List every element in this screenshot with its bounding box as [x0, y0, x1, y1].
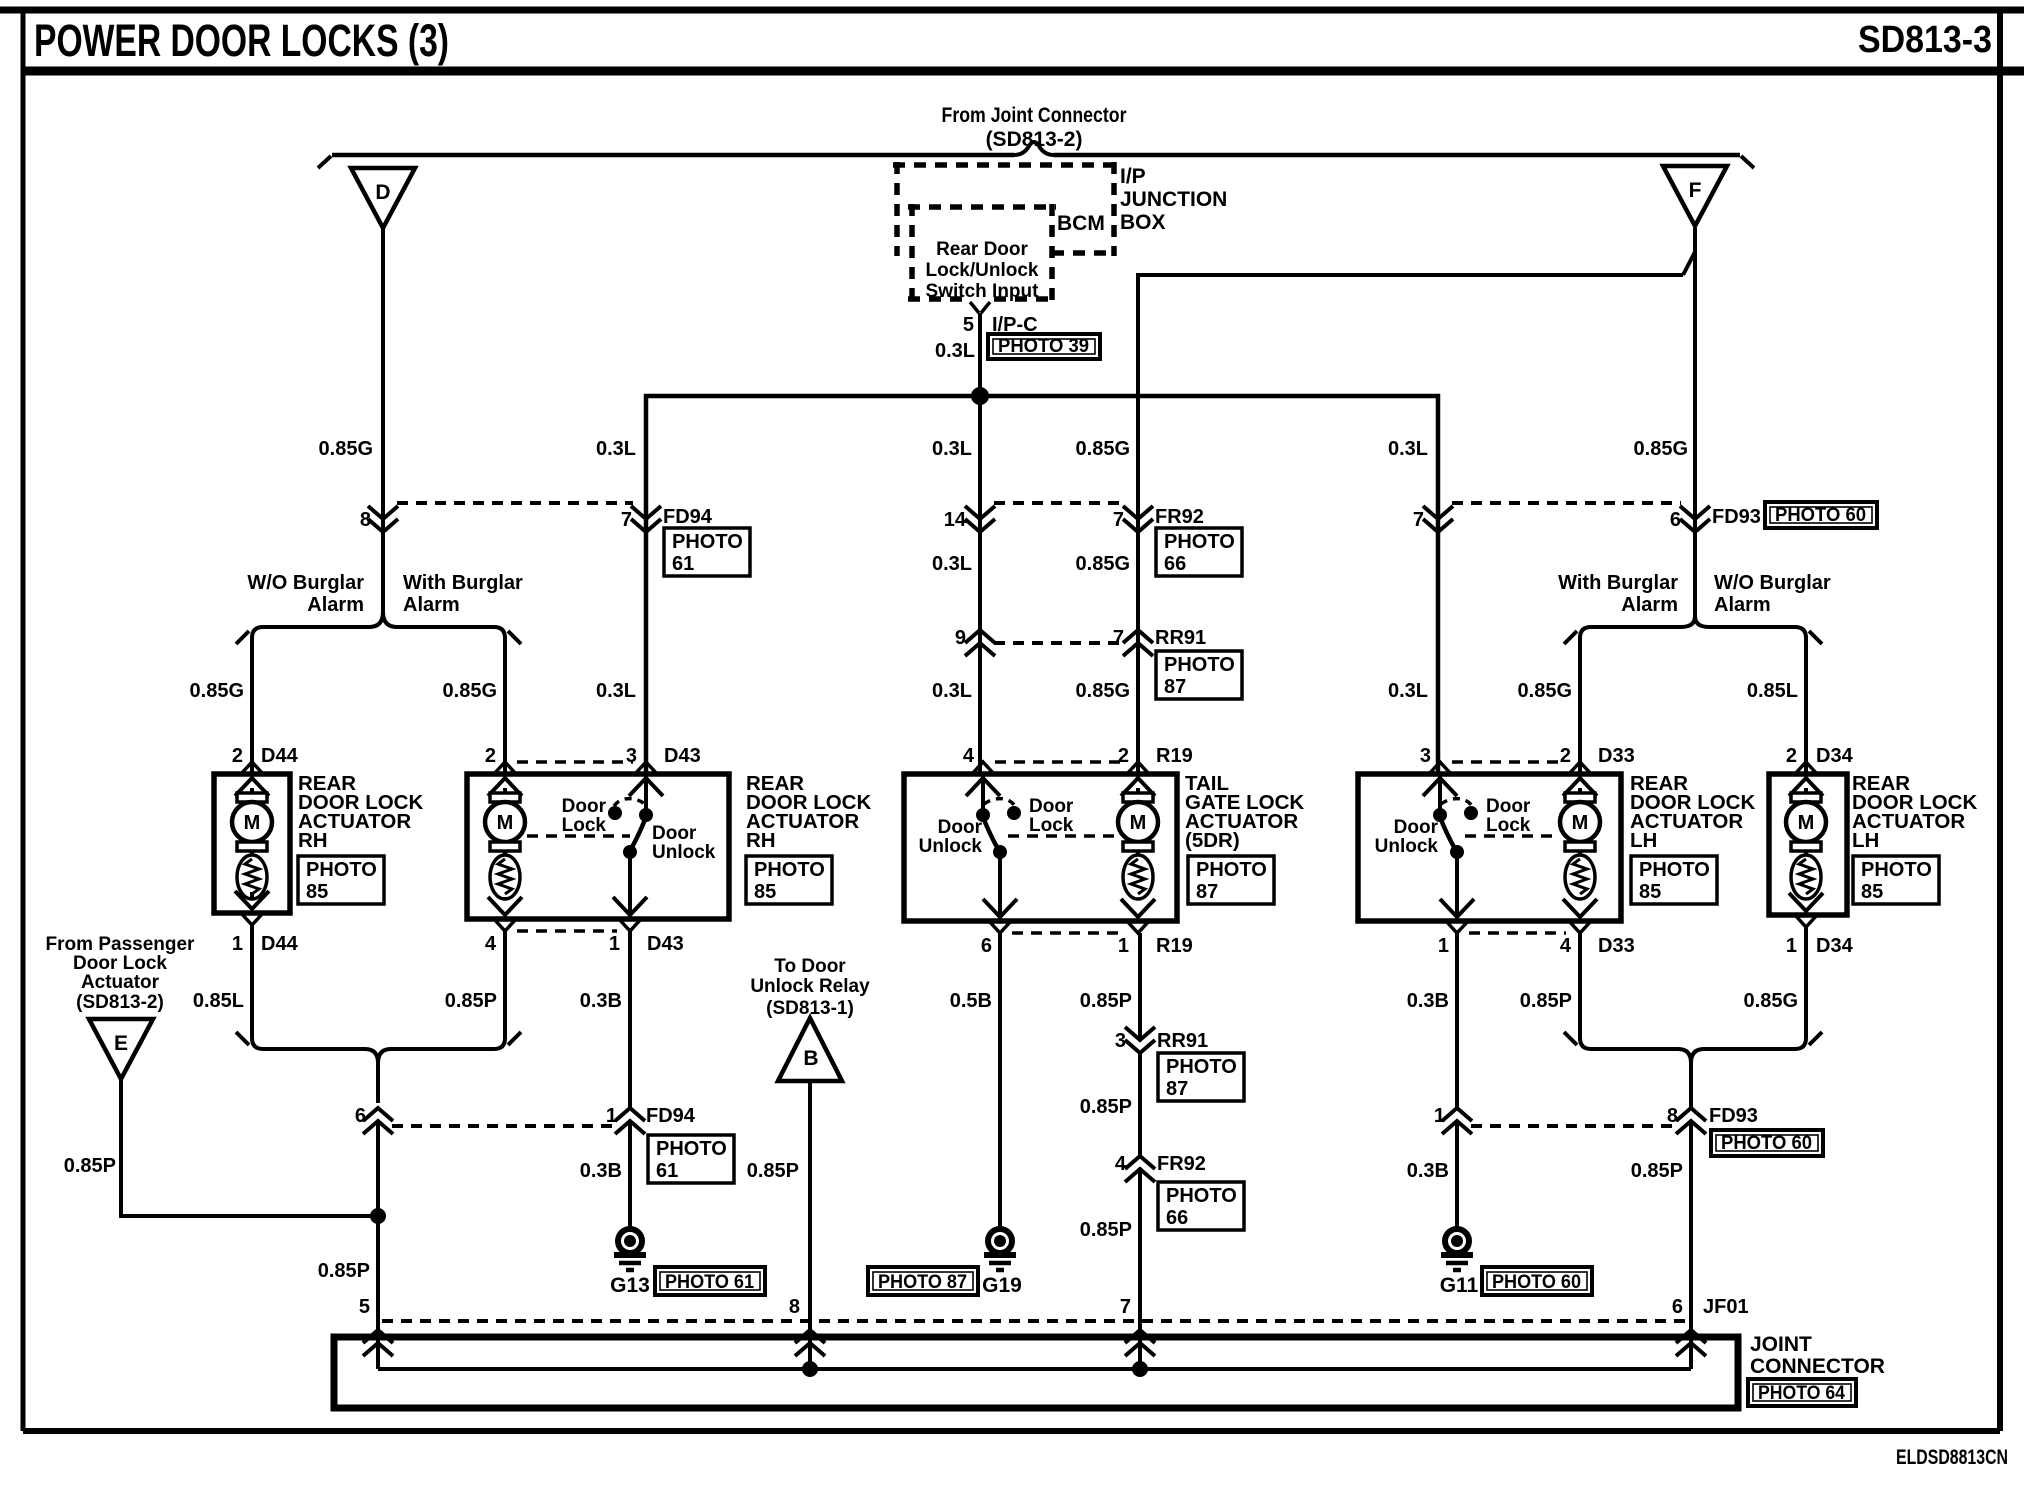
wire 0.85G to D33 pin 2 — [1578, 638, 1582, 774]
wire 0.85L from D44 pin 1 — [250, 925, 254, 1038]
svg-text:PHOTO: PHOTO — [1166, 1056, 1237, 1078]
pin 2 connector chevrons — [488, 762, 522, 796]
connector pin 9 on I/P-C branch — [965, 630, 995, 656]
svg-text:0.85P: 0.85P — [747, 1160, 799, 1182]
ground G19 — [984, 1229, 1016, 1270]
svg-text:0.85G: 0.85G — [1076, 553, 1130, 575]
svg-text:BCM: BCM — [1057, 212, 1105, 235]
svg-text:0.3B: 0.3B — [1407, 990, 1449, 1012]
svg-text:4: 4 — [1560, 935, 1572, 957]
svg-text:66: 66 — [1164, 553, 1186, 575]
svg-text:PHOTO: PHOTO — [1164, 531, 1235, 553]
wire 0.85G to D43 pin 2 — [503, 638, 507, 774]
svg-text:PHOTO: PHOTO — [1639, 859, 1710, 881]
connector R19 dashed link pins 4-2 — [995, 760, 1124, 764]
svg-text:1: 1 — [1434, 1105, 1445, 1127]
svg-text:Unlock: Unlock — [652, 842, 716, 863]
wire merge to passenger door lock feed — [236, 1032, 521, 1103]
photo ref box PHOTO 61 — [664, 528, 750, 576]
svg-text:M: M — [1572, 812, 1589, 834]
photo ref box PHOTO 61 — [655, 1267, 765, 1295]
svg-text:14: 14 — [944, 509, 967, 531]
joint connector internal bus — [378, 1367, 1691, 1371]
photo ref box PHOTO 87 — [1156, 651, 1242, 699]
svg-text:2: 2 — [1118, 745, 1129, 767]
svg-text:Alarm: Alarm — [1714, 594, 1771, 616]
ground G11 — [1441, 1229, 1473, 1270]
photo ref box PHOTO 61 — [648, 1135, 734, 1183]
wire switch common to pin 6 — [998, 852, 1002, 921]
ground G13 — [614, 1229, 646, 1270]
svg-text:D34: D34 — [1816, 745, 1854, 767]
svg-text:JUNCTION: JUNCTION — [1120, 188, 1227, 211]
svg-text:85: 85 — [754, 881, 776, 903]
svg-text:1: 1 — [1438, 935, 1449, 957]
node junction with connector E wire — [370, 1208, 386, 1224]
svg-text:Lock: Lock — [1486, 815, 1531, 836]
svg-text:JF01: JF01 — [1703, 1296, 1749, 1318]
motor M of tail gate lock actuator — [1118, 788, 1158, 899]
svg-text:7: 7 — [1113, 627, 1124, 649]
joint connector pin 7 chevrons — [1125, 1330, 1155, 1356]
svg-text:0.85L: 0.85L — [1747, 680, 1798, 702]
svg-text:0.85P: 0.85P — [1080, 1219, 1132, 1241]
wire pin 3 to switch — [1438, 774, 1442, 814]
svg-text:0.5B: 0.5B — [950, 990, 992, 1012]
svg-text:61: 61 — [672, 553, 694, 575]
svg-text:G13: G13 — [610, 1274, 650, 1297]
component box tail gate lock actuator (5DR), connector R19 — [904, 774, 1177, 921]
svg-text:PHOTO: PHOTO — [754, 859, 825, 881]
svg-text:6: 6 — [355, 1105, 366, 1127]
svg-text:0.3L: 0.3L — [932, 553, 972, 575]
svg-text:2: 2 — [1560, 745, 1571, 767]
pin 2 connector chevrons — [1563, 762, 1597, 796]
svg-text:Alarm: Alarm — [1621, 594, 1678, 616]
svg-text:0.85G: 0.85G — [1518, 680, 1572, 702]
wire 0.85G from connector D — [381, 228, 385, 612]
svg-text:To Door: To Door — [774, 956, 846, 977]
wire from connector F down to FR92 branch — [1138, 252, 1695, 774]
connector FD93 pin 6 — [1680, 506, 1710, 532]
svg-text:8: 8 — [789, 1296, 800, 1318]
wire 0.85P from FD93 pin 8 to joint connector pin 6 — [1689, 1121, 1693, 1369]
door lock/unlock switch of D43 actuator — [527, 799, 653, 859]
photo ref box PHOTO 85 — [1631, 856, 1717, 904]
svg-text:Unlock: Unlock — [1375, 836, 1439, 857]
wire split D branch to with/without burglar alarm — [236, 612, 521, 644]
svg-text:66: 66 — [1166, 1207, 1188, 1229]
photo ref box PHOTO 60 — [1711, 1130, 1823, 1156]
svg-text:BOX: BOX — [1120, 211, 1166, 234]
svg-text:D33: D33 — [1598, 745, 1635, 767]
wire 0.85G from connector F — [1693, 228, 1697, 616]
connector link dashed joint connector pins 5-8-7-6 — [382, 1319, 1692, 1323]
svg-text:CONNECTOR: CONNECTOR — [1750, 1355, 1885, 1378]
connector D43 dashed link pins 2-3 — [517, 760, 633, 764]
connector FD94 pin 7 — [631, 506, 661, 532]
svg-text:R19: R19 — [1156, 935, 1193, 957]
wire merge to FD93 pin 8 — [1564, 1032, 1822, 1108]
svg-text:0.3L: 0.3L — [596, 680, 636, 702]
connector RR91 pin 3 — [1125, 1027, 1155, 1053]
svg-text:87: 87 — [1164, 676, 1186, 698]
pin 4 connector chevrons — [488, 897, 522, 931]
svg-text:D43: D43 — [664, 745, 701, 767]
svg-text:0.85G: 0.85G — [319, 438, 373, 460]
svg-text:D33: D33 — [1598, 935, 1635, 957]
wire 0.85P from connector B to joint connector pin 8 — [808, 1080, 812, 1369]
svg-text:PHOTO: PHOTO — [656, 1138, 727, 1160]
svg-text:B: B — [803, 1047, 818, 1070]
joint connector pin 8 chevrons — [795, 1330, 825, 1356]
I/P junction box (dashed outline) — [893, 162, 1114, 256]
svg-text:PHOTO: PHOTO — [306, 859, 377, 881]
svg-text:Lock: Lock — [562, 815, 607, 836]
svg-text:W/O Burglar: W/O Burglar — [1714, 572, 1831, 594]
svg-text:1: 1 — [232, 933, 243, 955]
motor M of rear door lock actuator LH — [1560, 788, 1600, 899]
wire 0.85G to D44 pin 2 — [250, 638, 254, 774]
connector D43 dashed link pins 4-1 — [517, 929, 617, 933]
svg-text:0.85G: 0.85G — [1744, 990, 1798, 1012]
svg-text:M: M — [244, 812, 261, 834]
svg-text:0.85G: 0.85G — [190, 680, 244, 702]
wire 0.85P from D33 pin 4 — [1578, 931, 1582, 1038]
connector RR91 pin 7 — [1123, 630, 1153, 656]
svg-text:D34: D34 — [1816, 935, 1854, 957]
pin 1 connector chevrons — [1440, 899, 1474, 933]
svg-text:0.85L: 0.85L — [193, 990, 244, 1012]
svg-text:2: 2 — [1786, 745, 1797, 767]
svg-text:0.85G: 0.85G — [1634, 438, 1688, 460]
svg-text:Lock/Unlock: Lock/Unlock — [926, 260, 1039, 281]
svg-text:FR92: FR92 — [1157, 1153, 1206, 1175]
svg-text:1: 1 — [1118, 935, 1129, 957]
svg-text:8: 8 — [360, 509, 371, 531]
wire switch common to pin 1 — [1455, 852, 1459, 921]
wire split F branch to with/without burglar alarm — [1564, 616, 1822, 644]
svg-text:0.3B: 0.3B — [1407, 1160, 1449, 1182]
connector FD94 pin 1 — [615, 1108, 645, 1134]
svg-text:0.85G: 0.85G — [443, 680, 497, 702]
svg-text:M: M — [1798, 812, 1815, 834]
svg-text:87: 87 — [1166, 1078, 1188, 1100]
wire 0.3L from BCM pin 5 to node — [978, 313, 982, 396]
pin 6 connector chevrons — [983, 899, 1017, 933]
connector D33 dashed link pins 1-4 — [1469, 931, 1566, 935]
connector link dashed 1-8 — [1471, 1124, 1675, 1128]
svg-text:(SD813-2): (SD813-2) — [986, 128, 1083, 151]
wire 0.85P from D43 pin 4 — [503, 931, 507, 1038]
pin 2 connector chevrons — [1789, 762, 1823, 796]
svg-text:85: 85 — [306, 881, 328, 903]
wire switch common to pin 1 — [628, 852, 632, 919]
node junction of I/P-C wire and bus — [971, 387, 989, 405]
svg-text:0.85G: 0.85G — [1076, 680, 1130, 702]
svg-text:Alarm: Alarm — [403, 594, 460, 616]
wire 0.85G from D34 pin 1 — [1804, 927, 1808, 1038]
svg-text:PHOTO 60: PHOTO 60 — [1492, 1272, 1581, 1293]
svg-text:F: F — [1689, 179, 1702, 202]
svg-text:Rear Door: Rear Door — [936, 239, 1028, 260]
connector link dashed 14-7 — [994, 501, 1124, 505]
svg-text:PHOTO 60: PHOTO 60 — [1721, 1133, 1812, 1154]
svg-text:JOINT: JOINT — [1750, 1333, 1812, 1356]
svg-text:Alarm: Alarm — [307, 594, 364, 616]
svg-text:4: 4 — [485, 933, 497, 955]
svg-text:From Joint Connector: From Joint Connector — [942, 104, 1127, 127]
connector R19 dashed link pins 6-1 — [1012, 931, 1124, 935]
svg-text:4: 4 — [963, 745, 975, 767]
svg-text:G11: G11 — [1440, 1274, 1479, 1297]
svg-text:PHOTO: PHOTO — [1166, 1185, 1237, 1207]
joint connector pin 5 chevrons — [363, 1330, 393, 1356]
motor M of rear door lock actuator RH — [485, 788, 525, 899]
svg-text:RH: RH — [298, 829, 328, 852]
connector link dashed 8-7 — [397, 501, 633, 505]
pin 1 connector chevrons — [613, 897, 647, 931]
connector pin 8 on D branch — [368, 506, 398, 532]
svg-text:4: 4 — [1115, 1153, 1127, 1175]
svg-text:With Burglar: With Burglar — [403, 572, 523, 594]
svg-text:D: D — [375, 181, 390, 204]
svg-text:3: 3 — [1420, 745, 1431, 767]
pin 4 connector chevrons — [966, 762, 1000, 796]
wire bus from node to FD94 branch and right branch — [646, 396, 1438, 774]
wire 0.85P from connector E — [121, 1079, 378, 1216]
svg-text:Unlock Relay: Unlock Relay — [750, 976, 870, 997]
wire 0.3B from FD94 pin 1 to ground G13 — [628, 1121, 632, 1229]
svg-text:0.85P: 0.85P — [64, 1155, 116, 1177]
connector F (from joint connector) — [1663, 166, 1727, 226]
wire 0.3B from D43 pin 1 — [628, 931, 632, 1108]
svg-text:FD94: FD94 — [646, 1105, 696, 1127]
svg-text:FD93: FD93 — [1712, 506, 1761, 528]
photo ref box PHOTO 64 — [1748, 1379, 1856, 1406]
svg-text:FD94: FD94 — [663, 506, 713, 528]
connector pin 7 on right branch — [1423, 506, 1453, 532]
node joint connector bus junction — [1132, 1361, 1148, 1377]
connector D33 dashed link pins 3-2 — [1452, 760, 1566, 764]
svg-text:9: 9 — [955, 627, 966, 649]
svg-text:(5DR): (5DR) — [1185, 829, 1240, 852]
wire 0.85L to D34 pin 2 — [1804, 638, 1808, 774]
svg-text:0.3B: 0.3B — [580, 990, 622, 1012]
svg-text:Unlock: Unlock — [919, 836, 983, 857]
connector FR92 pin 7 — [1123, 506, 1153, 532]
svg-text:7: 7 — [621, 509, 632, 531]
svg-text:6: 6 — [981, 935, 992, 957]
pin 1 connector chevrons — [1121, 899, 1155, 933]
component box rear door lock actuator LH (with burglar alarm), connector D33 — [1358, 774, 1621, 921]
svg-text:PHOTO: PHOTO — [1164, 654, 1235, 676]
svg-text:RR91: RR91 — [1157, 1030, 1208, 1052]
svg-text:5: 5 — [359, 1296, 370, 1318]
svg-text:87: 87 — [1196, 881, 1218, 903]
connector B (to door unlock relay) — [778, 1018, 842, 1081]
component box rear door lock actuator LH (w/o burglar alarm), connector D34 — [1769, 774, 1847, 915]
pin 5 I/P-C output of BCM — [970, 302, 990, 313]
svg-text:0.85P: 0.85P — [1520, 990, 1572, 1012]
svg-text:I/P: I/P — [1120, 165, 1146, 188]
svg-text:From Passenger: From Passenger — [46, 934, 195, 955]
wire 0.3B to ground G11 — [1455, 1121, 1459, 1229]
wire pin 3 to switch — [644, 774, 648, 814]
svg-text:0.3L: 0.3L — [935, 340, 975, 362]
svg-text:G19: G19 — [982, 1274, 1022, 1297]
door lock/unlock switch of D33 actuator — [1433, 799, 1558, 859]
svg-text:3: 3 — [626, 745, 637, 767]
svg-text:1: 1 — [1786, 935, 1797, 957]
svg-text:PHOTO 61: PHOTO 61 — [665, 1272, 754, 1293]
photo ref box PHOTO 85 — [1853, 856, 1939, 904]
svg-text:Lock: Lock — [1029, 815, 1074, 836]
svg-text:LH: LH — [1852, 829, 1879, 852]
connector link dashed 7-6 — [1452, 501, 1681, 505]
svg-text:0.3L: 0.3L — [932, 438, 972, 460]
connector pin 1 on D33 switch wire — [1442, 1108, 1472, 1134]
svg-text:R19: R19 — [1156, 745, 1193, 767]
door lock/unlock switch of tail gate actuator — [976, 799, 1116, 859]
svg-text:PHOTO 87: PHOTO 87 — [878, 1272, 967, 1293]
svg-text:0.85P: 0.85P — [1080, 1096, 1132, 1118]
photo ref box PHOTO 66 — [1156, 528, 1242, 576]
pin 3 connector chevrons — [629, 762, 663, 796]
svg-text:PHOTO: PHOTO — [672, 531, 743, 553]
svg-text:7: 7 — [1120, 1296, 1131, 1318]
pin 2 connector chevrons — [1121, 762, 1155, 796]
pin 4 connector chevrons — [1563, 899, 1597, 933]
svg-text:PHOTO: PHOTO — [1196, 859, 1267, 881]
pin 1 connector chevrons — [235, 891, 269, 925]
svg-text:8: 8 — [1667, 1105, 1678, 1127]
svg-text:0.3L: 0.3L — [932, 680, 972, 702]
pin 3 connector chevrons — [1423, 762, 1457, 796]
svg-text:0.3L: 0.3L — [1388, 438, 1428, 460]
svg-text:0.85P: 0.85P — [318, 1260, 370, 1282]
wire top feed bus from joint connector SD813-2 — [318, 142, 1754, 168]
svg-text:ELDSD8813CN: ELDSD8813CN — [1896, 1446, 2008, 1469]
wire 0.3L down to tail gate actuator pin 4 — [978, 396, 982, 774]
svg-text:85: 85 — [1861, 881, 1883, 903]
svg-text:Door: Door — [1394, 817, 1439, 838]
svg-text:5: 5 — [963, 314, 974, 336]
svg-text:With Burglar: With Burglar — [1558, 572, 1678, 594]
svg-text:RR91: RR91 — [1155, 627, 1206, 649]
photo ref box PHOTO 60 — [1765, 502, 1877, 528]
wire 0.85P to joint connector pin 5 — [376, 1121, 380, 1369]
svg-text:0.3L: 0.3L — [596, 438, 636, 460]
svg-text:FD93: FD93 — [1709, 1105, 1758, 1127]
svg-text:0.85P: 0.85P — [445, 990, 497, 1012]
svg-text:Actuator: Actuator — [81, 972, 160, 993]
svg-text:1: 1 — [609, 933, 620, 955]
motor M of rear door lock actuator RH — [232, 788, 272, 899]
svg-text:Door: Door — [562, 796, 607, 817]
connector pin 6 on merged wire — [363, 1108, 393, 1134]
svg-text:POWER DOOR LOCKS (3): POWER DOOR LOCKS (3) — [34, 15, 449, 66]
svg-text:PHOTO 60: PHOTO 60 — [1775, 505, 1866, 526]
svg-text:E: E — [114, 1032, 128, 1055]
photo ref box PHOTO 87 — [1158, 1053, 1244, 1101]
svg-text:RH: RH — [746, 829, 776, 852]
svg-text:(SD813-2): (SD813-2) — [76, 992, 164, 1013]
pin 1 connector chevrons — [1789, 893, 1823, 927]
node joint connector bus junction — [802, 1361, 818, 1377]
svg-text:0.85P: 0.85P — [1631, 1160, 1683, 1182]
svg-text:6: 6 — [1670, 509, 1681, 531]
connector FD93 pin 8 — [1676, 1108, 1706, 1134]
connector pin 14 on I/P-C branch — [965, 506, 995, 532]
svg-text:0.85G: 0.85G — [1076, 438, 1130, 460]
component box rear door lock actuator RH (w/o burglar alarm), connector D44 — [214, 774, 290, 913]
wire 0.85P from R19 pin 1 — [1138, 933, 1142, 1040]
svg-text:LH: LH — [1630, 829, 1657, 852]
svg-text:Switch Input: Switch Input — [926, 281, 1040, 302]
svg-text:Door: Door — [1029, 796, 1074, 817]
joint connector box — [334, 1337, 1738, 1408]
photo ref box PHOTO 87 — [1188, 856, 1274, 904]
connector link dashed 6-1 — [392, 1124, 614, 1128]
svg-text:FR92: FR92 — [1155, 506, 1204, 528]
svg-text:2: 2 — [232, 745, 243, 767]
photo ref box PHOTO 60 — [1482, 1267, 1592, 1295]
svg-text:0.3L: 0.3L — [1388, 680, 1428, 702]
svg-text:Door: Door — [1486, 796, 1531, 817]
wire 0.3B from D33 pin 1 — [1455, 933, 1459, 1108]
wire inside actuator — [503, 897, 507, 899]
svg-text:D43: D43 — [647, 933, 684, 955]
svg-text:3: 3 — [1115, 1030, 1126, 1052]
wire 0.85P between RR91 and FR92 — [1138, 1053, 1142, 1156]
connector FR92 pin 4 — [1125, 1156, 1155, 1182]
svg-text:7: 7 — [1113, 509, 1124, 531]
BCM box (dashed outline) with rear door lock/unlock switch input — [908, 204, 1056, 302]
svg-text:M: M — [1130, 812, 1147, 834]
svg-text:85: 85 — [1639, 881, 1661, 903]
svg-text:0.3B: 0.3B — [580, 1160, 622, 1182]
svg-text:2: 2 — [485, 745, 496, 767]
photo ref box PHOTO 39 — [988, 334, 1100, 359]
component box rear door lock actuator RH (with burglar alarm), connector D43 — [467, 774, 729, 919]
svg-text:M: M — [497, 812, 514, 834]
svg-text:PHOTO 39: PHOTO 39 — [998, 336, 1089, 357]
photo ref box PHOTO 87 — [868, 1267, 978, 1295]
photo ref box PHOTO 85 — [746, 856, 832, 904]
pin 2 connector chevrons — [235, 762, 269, 796]
svg-text:Door: Door — [652, 823, 697, 844]
connector D (from joint connector) — [351, 168, 415, 228]
svg-text:PHOTO: PHOTO — [1861, 859, 1932, 881]
wire pin 4 to switch — [981, 774, 985, 814]
wire 0.5B from R19 pin 6 to ground G19 — [998, 933, 1002, 1229]
svg-text:SD813-3: SD813-3 — [1858, 19, 1992, 61]
svg-text:D44: D44 — [261, 933, 299, 955]
motor M of rear door lock actuator LH — [1786, 788, 1826, 899]
svg-text:6: 6 — [1672, 1296, 1683, 1318]
connector link dashed 9-7 — [994, 641, 1124, 645]
svg-text:0.85P: 0.85P — [1080, 990, 1132, 1012]
svg-text:D44: D44 — [261, 745, 299, 767]
svg-text:Door Lock: Door Lock — [73, 953, 167, 974]
joint connector pin 6 JF01 chevrons — [1676, 1330, 1706, 1356]
svg-text:1: 1 — [606, 1105, 617, 1127]
svg-text:PHOTO 64: PHOTO 64 — [1758, 1383, 1845, 1404]
svg-text:W/O Burglar: W/O Burglar — [247, 572, 364, 594]
svg-text:61: 61 — [656, 1160, 678, 1182]
svg-text:Door: Door — [938, 817, 983, 838]
